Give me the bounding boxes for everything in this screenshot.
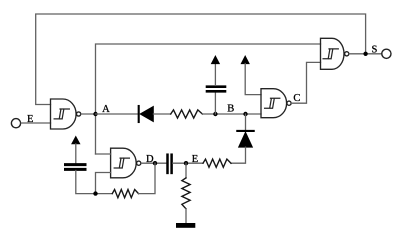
ground xyxy=(176,223,195,228)
terminal E (input) xyxy=(11,119,20,128)
wire capacitor C3 to node E xyxy=(173,162,203,164)
diode D1 (horizontal, cathode at left toward A) xyxy=(138,106,140,122)
wire feedback from node S: top horizontal run down to NAND1 top input xyxy=(36,14,366,105)
supply arrow (VCC) for NAND3 top input xyxy=(241,56,249,64)
op-amp / NAND Schmitt gate U2 (D stage) xyxy=(111,148,137,178)
U4 output bubble xyxy=(345,52,349,56)
svg-text:C: C xyxy=(293,93,300,104)
supply arrow (VCC) above capacitor C2 xyxy=(72,136,80,144)
capacitor C3 (series, D to E) xyxy=(166,155,169,173)
resistor R4 (U2 feedback) xyxy=(112,190,138,198)
wire capacitor C1 to supply arrow xyxy=(214,63,216,85)
capacitor C2 xyxy=(66,163,86,166)
node B junction (diode D2) xyxy=(243,112,247,116)
wire node A to diode D1 xyxy=(96,113,138,115)
wire U4 output to terminal S xyxy=(349,53,381,55)
svg-text:A: A xyxy=(102,104,110,115)
resistor R3 (node E to ground, vertical) xyxy=(185,163,187,178)
node A xyxy=(93,112,97,116)
resistor R2 (node E to diode D2) xyxy=(203,159,231,167)
op-amp / NAND Schmitt gate U1 (input stage) xyxy=(51,99,77,129)
diode D2 (vertical, cathode at top toward B) xyxy=(237,130,253,132)
svg-text:E: E xyxy=(192,154,198,165)
U4 schmitt hysteresis glyph xyxy=(323,49,338,59)
terminal S (output) xyxy=(382,49,391,58)
node E xyxy=(184,161,188,165)
U1 output bubble xyxy=(77,112,81,116)
U3 schmitt hysteresis glyph xyxy=(265,98,280,108)
wire E terminal to NAND1 bottom input xyxy=(21,122,50,124)
wire U2 output to node D xyxy=(141,162,166,164)
wire U1 output to node A xyxy=(81,113,95,115)
node S xyxy=(363,52,367,56)
supply arrow (VCC) above C1 xyxy=(211,56,219,64)
wire supply arrow to NAND3 top input xyxy=(245,64,261,95)
wire node A riser into U2 top input xyxy=(96,153,111,155)
wire diode D2 anode down and left to resistor R2 xyxy=(231,147,246,163)
wire node A vertical riser and long horizontal run to NAND4 top input xyxy=(96,44,321,154)
op-amp / NAND Schmitt gate U4 (output stage S) xyxy=(321,38,345,69)
wire resistor R3 to ground xyxy=(185,209,187,223)
wire U3 output C to NAND4 bottom input xyxy=(292,62,321,103)
U2 output bubble xyxy=(137,161,141,165)
wire U2 bottom input down to feedback wire xyxy=(96,173,111,194)
U3 output bubble xyxy=(287,101,291,105)
wire capacitor C1 to node B xyxy=(214,93,216,114)
wire node B down to diode D2 xyxy=(245,114,247,130)
node B junction (capacitor C1) xyxy=(213,112,217,116)
resistor R1 (A line to node B) xyxy=(171,110,203,118)
U2 schmitt hysteresis glyph xyxy=(114,158,129,168)
wire resistor R1 to node B xyxy=(202,113,261,115)
node D xyxy=(153,161,157,165)
capacitor C1 xyxy=(207,85,225,88)
wire capacitor C2 down to feedback wire xyxy=(76,171,113,194)
svg-text:B: B xyxy=(227,104,234,115)
wire diode D1 to resistor R1 xyxy=(153,113,170,115)
wire resistor R4 up to node D xyxy=(139,163,156,193)
svg-text:S: S xyxy=(371,44,377,55)
U1 schmitt hysteresis glyph xyxy=(54,109,69,119)
op-amp / NAND Schmitt gate U3 (C stage) xyxy=(261,89,287,118)
junction U2 feedback xyxy=(93,191,97,195)
wire supply arrow to capacitor C2 xyxy=(75,144,77,163)
